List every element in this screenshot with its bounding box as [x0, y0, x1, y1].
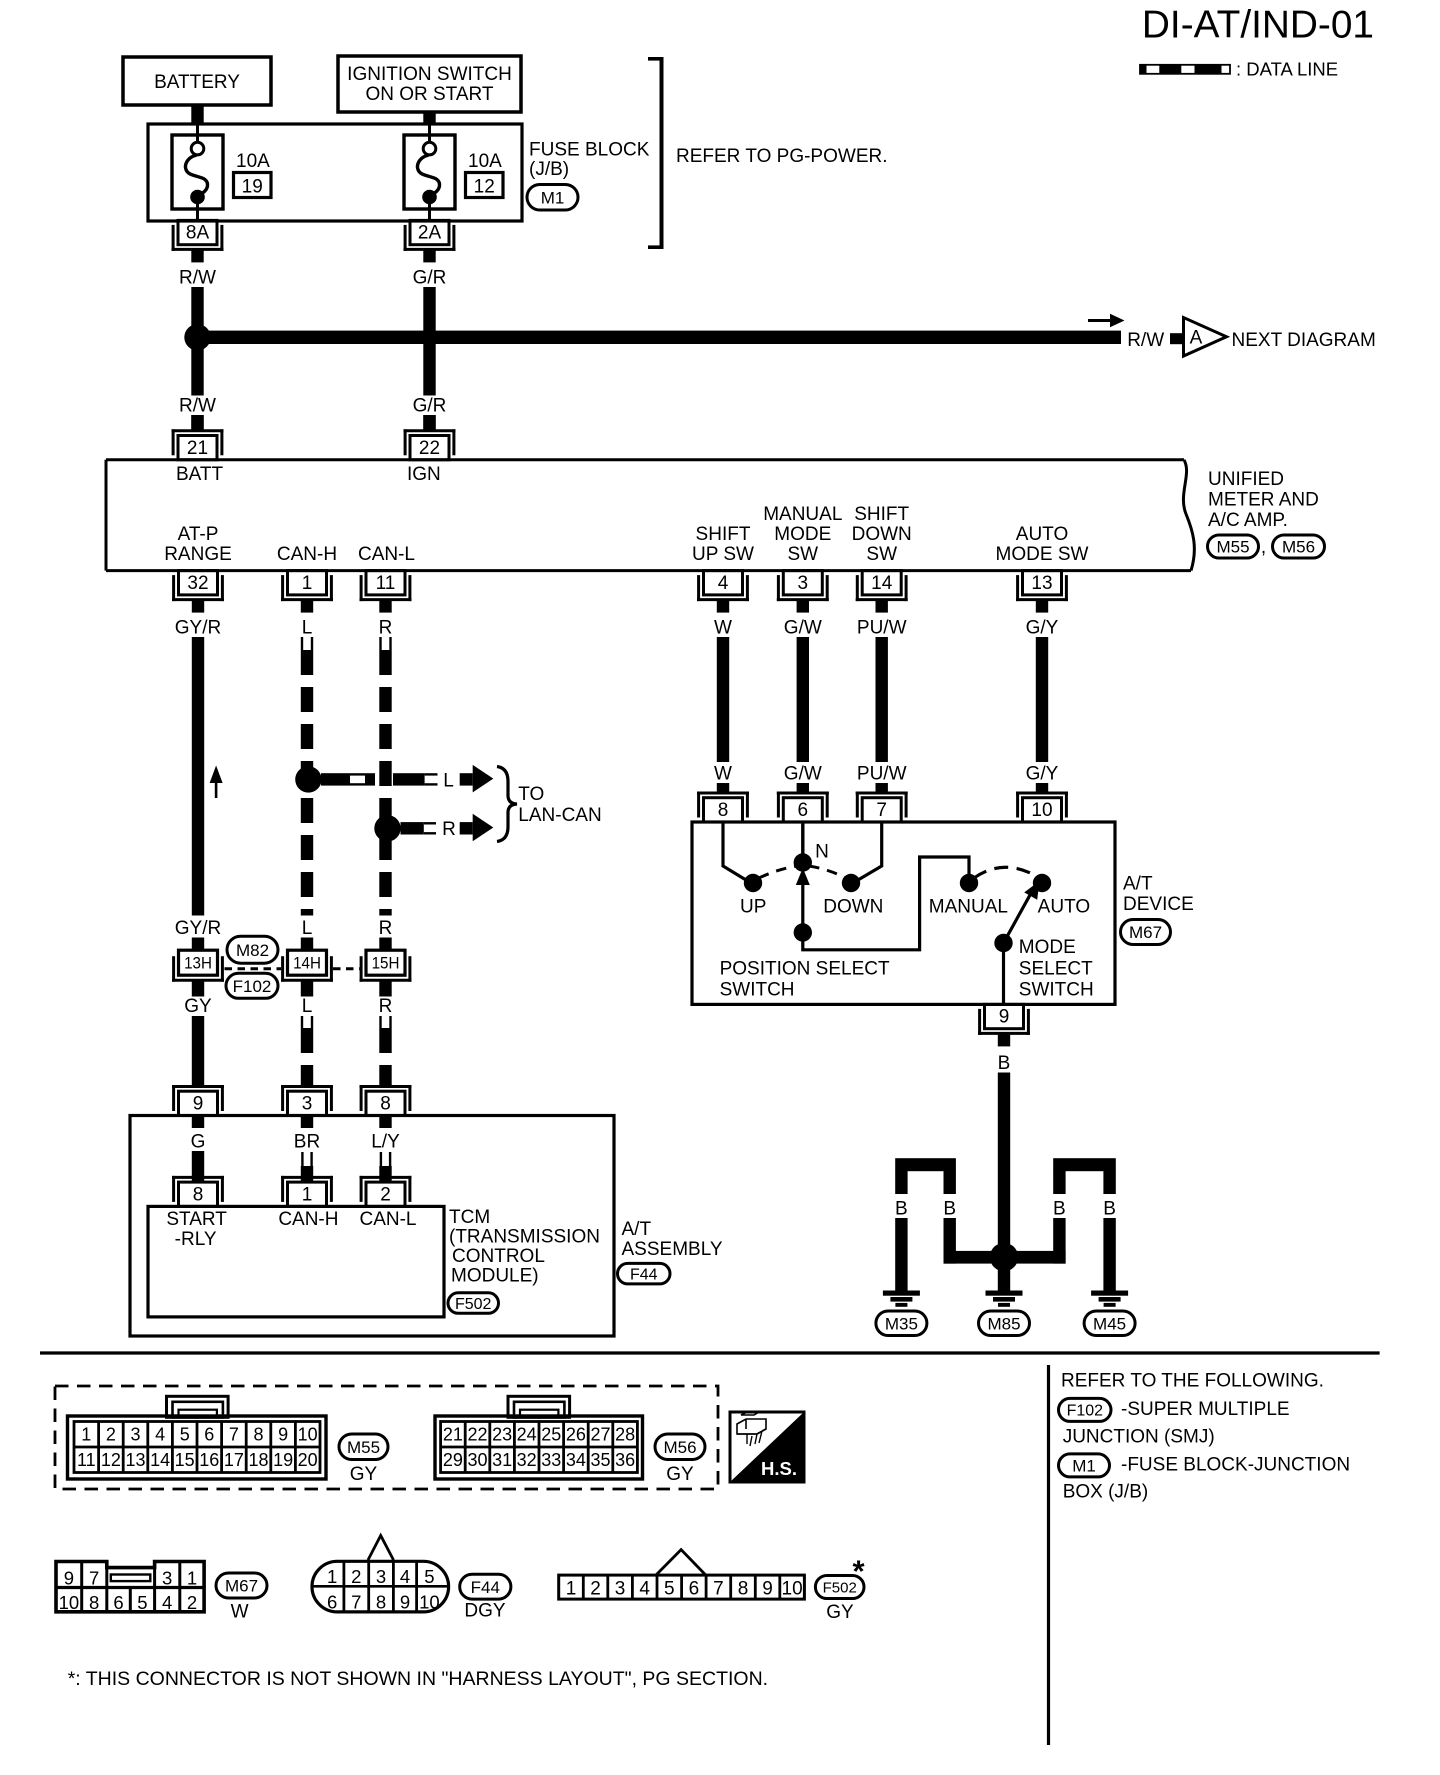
- svg-text:UNIFIED: UNIFIED: [1208, 469, 1284, 490]
- svg-text:CONTROL: CONTROL: [452, 1246, 545, 1267]
- svg-text:13: 13: [125, 1450, 145, 1470]
- svg-text:BR: BR: [294, 1131, 320, 1152]
- svg-text:3: 3: [162, 1568, 172, 1589]
- svg-text:25: 25: [541, 1425, 561, 1445]
- svg-text:8: 8: [380, 1094, 391, 1115]
- svg-text:1: 1: [302, 573, 313, 594]
- svg-text:START: START: [166, 1209, 227, 1230]
- svg-text:POSITION SELECT: POSITION SELECT: [720, 958, 890, 979]
- svg-text:32: 32: [517, 1450, 537, 1470]
- svg-text:W: W: [714, 617, 732, 638]
- svg-text:,: ,: [1261, 537, 1266, 558]
- svg-text:METER AND: METER AND: [1208, 490, 1319, 511]
- svg-text:4: 4: [400, 1566, 410, 1587]
- svg-text:B: B: [998, 1053, 1011, 1074]
- svg-text:SHIFT: SHIFT: [854, 504, 909, 525]
- svg-text:JUNCTION (SMJ): JUNCTION (SMJ): [1063, 1426, 1215, 1447]
- svg-text:REFER TO PG-POWER.: REFER TO PG-POWER.: [676, 146, 888, 167]
- svg-text:10: 10: [298, 1425, 318, 1445]
- svg-text:-RLY: -RLY: [175, 1229, 217, 1250]
- svg-text:8: 8: [738, 1579, 749, 1600]
- svg-text:DOWN: DOWN: [823, 897, 883, 918]
- svg-text:4: 4: [162, 1592, 172, 1613]
- svg-text:CAN-H: CAN-H: [278, 1209, 338, 1230]
- svg-text:CAN-L: CAN-L: [358, 544, 415, 565]
- svg-text:19: 19: [273, 1450, 293, 1470]
- svg-text:9: 9: [64, 1568, 74, 1589]
- svg-text:IGNITION SWITCH: IGNITION SWITCH: [347, 64, 512, 85]
- svg-text:L: L: [443, 770, 454, 791]
- svg-text:-FUSE BLOCK-JUNCTION: -FUSE BLOCK-JUNCTION: [1121, 1455, 1350, 1476]
- svg-text:17: 17: [224, 1450, 244, 1470]
- svg-text:ON OR START: ON OR START: [365, 84, 493, 105]
- svg-text:G: G: [191, 1131, 206, 1152]
- svg-text:6: 6: [798, 800, 809, 821]
- svg-text:10: 10: [1031, 800, 1052, 821]
- svg-text:CAN-L: CAN-L: [359, 1209, 416, 1230]
- svg-text:G/W: G/W: [784, 763, 822, 784]
- svg-text:9: 9: [400, 1591, 410, 1612]
- svg-text:10A: 10A: [468, 151, 502, 172]
- svg-text:9: 9: [999, 1007, 1010, 1028]
- svg-text:GY: GY: [350, 1464, 378, 1485]
- svg-text:10: 10: [782, 1579, 803, 1600]
- svg-text:M55: M55: [347, 1438, 380, 1457]
- svg-text:33: 33: [541, 1450, 561, 1470]
- svg-text:GY: GY: [184, 996, 212, 1017]
- svg-text:M1: M1: [541, 188, 565, 207]
- svg-text:6: 6: [113, 1592, 123, 1613]
- svg-text:12: 12: [474, 177, 495, 198]
- svg-text:4: 4: [639, 1579, 650, 1600]
- svg-text:GY/R: GY/R: [175, 617, 221, 638]
- svg-text:F44: F44: [630, 1266, 658, 1283]
- svg-text:TCM: TCM: [449, 1207, 490, 1228]
- svg-text:AT-P: AT-P: [178, 524, 219, 545]
- svg-text:8: 8: [193, 1185, 204, 1206]
- svg-text:10: 10: [419, 1591, 440, 1612]
- svg-text:6: 6: [204, 1425, 214, 1445]
- svg-text:B: B: [943, 1198, 956, 1219]
- svg-text:AUTO: AUTO: [1038, 897, 1090, 918]
- svg-text:M1: M1: [1072, 1457, 1096, 1476]
- svg-text:1: 1: [327, 1566, 337, 1587]
- svg-text:7: 7: [229, 1425, 239, 1445]
- svg-text:N: N: [815, 841, 829, 862]
- svg-text:L: L: [302, 918, 313, 939]
- svg-text:W: W: [231, 1602, 249, 1623]
- svg-text:(J/B): (J/B): [529, 159, 569, 180]
- svg-text:DOWN: DOWN: [852, 524, 912, 545]
- svg-text:15: 15: [175, 1450, 195, 1470]
- svg-text:21: 21: [443, 1425, 463, 1445]
- svg-text:14: 14: [150, 1450, 170, 1470]
- svg-text:1: 1: [81, 1425, 91, 1445]
- svg-text:R/W: R/W: [179, 267, 216, 288]
- svg-text:14H: 14H: [293, 955, 321, 973]
- svg-text:LAN-CAN: LAN-CAN: [518, 805, 601, 826]
- svg-text:1: 1: [566, 1579, 577, 1600]
- svg-text:G/R: G/R: [413, 267, 447, 288]
- svg-text:3: 3: [302, 1094, 313, 1115]
- svg-text:G/W: G/W: [784, 617, 822, 638]
- svg-text:F44: F44: [471, 1578, 500, 1597]
- svg-text:15H: 15H: [372, 955, 400, 973]
- svg-text:8: 8: [376, 1591, 386, 1612]
- svg-text:36: 36: [615, 1450, 635, 1470]
- svg-text:B: B: [1103, 1198, 1116, 1219]
- svg-text:8: 8: [718, 800, 729, 821]
- svg-text:FUSE BLOCK: FUSE BLOCK: [529, 139, 650, 160]
- svg-text:G/R: G/R: [413, 396, 447, 417]
- svg-text:NEXT DIAGRAM: NEXT DIAGRAM: [1232, 330, 1376, 351]
- svg-text:26: 26: [566, 1425, 586, 1445]
- svg-text:W: W: [714, 763, 732, 784]
- svg-text:A: A: [1190, 328, 1203, 349]
- svg-text:13: 13: [1031, 573, 1052, 594]
- svg-text:M82: M82: [236, 941, 269, 960]
- svg-text:4: 4: [155, 1425, 165, 1445]
- svg-text:29: 29: [443, 1450, 463, 1470]
- svg-text:2: 2: [106, 1425, 116, 1445]
- svg-text:M56: M56: [1282, 538, 1315, 557]
- svg-text:(TRANSMISSION: (TRANSMISSION: [449, 1227, 600, 1248]
- svg-text:10: 10: [59, 1592, 80, 1613]
- svg-text:2: 2: [187, 1592, 197, 1613]
- svg-text:4: 4: [718, 573, 729, 594]
- svg-text:24: 24: [517, 1425, 537, 1445]
- svg-text:SELECT: SELECT: [1019, 958, 1093, 979]
- svg-text:23: 23: [492, 1425, 512, 1445]
- svg-text:L/Y: L/Y: [371, 1131, 400, 1152]
- svg-text:M55: M55: [1216, 538, 1249, 557]
- svg-text:R: R: [379, 918, 393, 939]
- svg-text:A/C AMP.: A/C AMP.: [1208, 510, 1288, 531]
- svg-text:19: 19: [242, 177, 263, 198]
- svg-text:6: 6: [689, 1579, 700, 1600]
- svg-text:DEVICE: DEVICE: [1123, 894, 1194, 915]
- svg-text:8: 8: [253, 1425, 263, 1445]
- svg-text:F102: F102: [233, 977, 272, 996]
- svg-text:9: 9: [762, 1579, 773, 1600]
- svg-text:IGN: IGN: [407, 464, 441, 485]
- svg-text:BATT: BATT: [176, 464, 224, 485]
- svg-text:H.S.: H.S.: [761, 1458, 797, 1479]
- svg-text:R/W: R/W: [1127, 330, 1164, 351]
- svg-text:M67: M67: [1129, 923, 1162, 942]
- svg-text:5: 5: [664, 1579, 675, 1600]
- svg-text:1: 1: [187, 1568, 197, 1589]
- svg-text:RANGE: RANGE: [164, 544, 232, 565]
- svg-text:8: 8: [89, 1592, 99, 1613]
- svg-text:PU/W: PU/W: [857, 617, 907, 638]
- svg-text:B: B: [895, 1198, 908, 1219]
- svg-text:5: 5: [180, 1425, 190, 1445]
- svg-text:7: 7: [351, 1591, 361, 1612]
- svg-text:3: 3: [130, 1425, 140, 1445]
- svg-text:R/W: R/W: [179, 396, 216, 417]
- svg-text:GY: GY: [666, 1464, 694, 1485]
- svg-text:27: 27: [590, 1425, 610, 1445]
- svg-text:CAN-H: CAN-H: [277, 544, 337, 565]
- svg-text:L: L: [302, 617, 313, 638]
- svg-text:1: 1: [302, 1185, 313, 1206]
- svg-text:M67: M67: [225, 1577, 258, 1596]
- svg-text:SW: SW: [866, 544, 897, 565]
- svg-text:A/T: A/T: [1123, 874, 1153, 895]
- svg-text:7: 7: [89, 1568, 99, 1589]
- svg-text:BATTERY: BATTERY: [154, 72, 240, 93]
- svg-text:L: L: [302, 996, 313, 1017]
- svg-text:6: 6: [327, 1591, 337, 1612]
- svg-text:18: 18: [248, 1450, 268, 1470]
- svg-text:MODE: MODE: [1019, 937, 1076, 958]
- svg-text:BOX (J/B): BOX (J/B): [1063, 1482, 1149, 1503]
- svg-text:9: 9: [193, 1094, 204, 1115]
- svg-text:F502: F502: [455, 1296, 492, 1313]
- svg-text:AUTO: AUTO: [1016, 524, 1068, 545]
- svg-text:TO: TO: [518, 784, 544, 805]
- svg-text:R: R: [442, 819, 456, 840]
- svg-text:SWITCH: SWITCH: [1019, 980, 1094, 1001]
- svg-text:12: 12: [101, 1450, 121, 1470]
- svg-text:35: 35: [590, 1450, 610, 1470]
- svg-text:PU/W: PU/W: [857, 763, 907, 784]
- svg-text:11: 11: [77, 1450, 96, 1470]
- svg-text:22: 22: [419, 438, 440, 459]
- svg-text:R: R: [379, 617, 393, 638]
- svg-text:9: 9: [278, 1425, 288, 1445]
- svg-text:10A: 10A: [236, 151, 270, 172]
- svg-text:REFER TO THE FOLLOWING.: REFER TO THE FOLLOWING.: [1061, 1371, 1324, 1392]
- svg-text:M56: M56: [663, 1438, 696, 1457]
- svg-text:5: 5: [424, 1566, 434, 1587]
- svg-text:DI-AT/IND-01: DI-AT/IND-01: [1142, 4, 1374, 47]
- svg-text:13H: 13H: [184, 955, 212, 973]
- svg-text:5: 5: [137, 1592, 147, 1613]
- svg-text:31: 31: [492, 1450, 512, 1470]
- svg-text:2A: 2A: [418, 223, 442, 244]
- svg-text:M35: M35: [885, 1314, 918, 1333]
- svg-text:B: B: [1053, 1198, 1066, 1219]
- svg-text:B: B: [998, 1198, 1011, 1219]
- svg-text:MODE SW: MODE SW: [996, 544, 1089, 565]
- svg-text:3: 3: [376, 1566, 386, 1587]
- svg-text:21: 21: [187, 438, 208, 459]
- svg-text:R: R: [379, 996, 393, 1017]
- svg-text:7: 7: [876, 800, 887, 821]
- svg-text:M45: M45: [1093, 1314, 1126, 1333]
- svg-text:22: 22: [467, 1425, 487, 1445]
- svg-text:32: 32: [187, 573, 208, 594]
- svg-text:MODE: MODE: [774, 524, 831, 545]
- svg-text:UP: UP: [740, 897, 766, 918]
- svg-text:11: 11: [376, 573, 396, 594]
- svg-text:UP SW: UP SW: [692, 544, 754, 565]
- svg-text:SW: SW: [787, 544, 818, 565]
- svg-text:*: THIS CONNECTOR IS NOT SHOWN: *: THIS CONNECTOR IS NOT SHOWN IN "HARNE…: [68, 1668, 768, 1690]
- svg-text:M85: M85: [987, 1314, 1020, 1333]
- svg-text:20: 20: [298, 1450, 318, 1470]
- svg-text:GY/R: GY/R: [175, 918, 221, 939]
- svg-text:G/Y: G/Y: [1026, 763, 1059, 784]
- svg-text:MANUAL: MANUAL: [763, 504, 842, 525]
- svg-text:14: 14: [871, 573, 893, 594]
- svg-text:: DATA LINE: : DATA LINE: [1236, 59, 1338, 80]
- svg-text:MANUAL: MANUAL: [929, 897, 1008, 918]
- svg-text:2: 2: [590, 1579, 601, 1600]
- svg-text:8A: 8A: [186, 223, 210, 244]
- svg-text:SHIFT: SHIFT: [696, 524, 751, 545]
- svg-text:2: 2: [380, 1185, 391, 1206]
- svg-text:SWITCH: SWITCH: [720, 980, 795, 1001]
- svg-text:*: *: [852, 1554, 865, 1589]
- svg-text:G/Y: G/Y: [1026, 617, 1059, 638]
- svg-text:16: 16: [199, 1450, 219, 1470]
- svg-text:2: 2: [351, 1566, 361, 1587]
- svg-text:28: 28: [615, 1425, 635, 1445]
- svg-text:F102: F102: [1067, 1403, 1104, 1420]
- svg-text:GY: GY: [826, 1602, 854, 1623]
- svg-text:MODULE): MODULE): [451, 1266, 539, 1287]
- svg-text:7: 7: [713, 1579, 724, 1600]
- svg-text:ASSEMBLY: ASSEMBLY: [622, 1239, 723, 1260]
- svg-text:DGY: DGY: [464, 1601, 506, 1622]
- svg-text:30: 30: [467, 1450, 487, 1470]
- svg-text:34: 34: [566, 1450, 586, 1470]
- svg-text:3: 3: [798, 573, 809, 594]
- svg-text:-SUPER MULTIPLE: -SUPER MULTIPLE: [1121, 1399, 1290, 1420]
- svg-text:A/T: A/T: [622, 1219, 652, 1240]
- svg-text:3: 3: [615, 1579, 626, 1600]
